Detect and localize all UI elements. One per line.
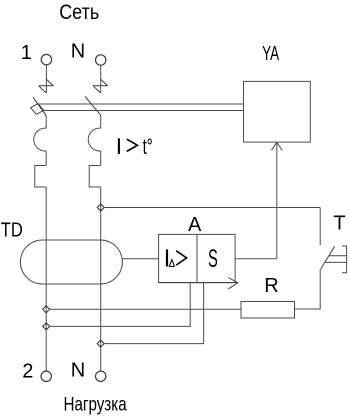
terminal circle 1: [41, 54, 51, 64]
trip-mechanism square on blade pole1: [31, 104, 44, 115]
pole1 wire above coil: [45, 115, 47, 128]
breaker release symbol pole1: [39, 79, 54, 93]
poleN wire above coil: [100, 115, 102, 128]
electromagnetic release arc poleN: [88, 128, 100, 151]
wire TD secondary to module A: [123, 258, 159, 260]
breaker blade contact pole1: [33, 97, 46, 115]
arrow at module A bottom right: [159, 278, 238, 289]
svg-text:1: 1: [21, 42, 32, 64]
poleN wire between releases: [100, 151, 102, 166]
svg-text:S: S: [208, 245, 218, 273]
wire test circuit top horizontal: [104, 207, 320, 209]
terminal circle 2: [41, 371, 51, 381]
wire neutral supply to module A: [104, 283, 203, 344]
arrowhead into YA: [271, 142, 282, 150]
terminal circle N bottom: [96, 371, 106, 381]
wire S output to YA (vertical): [276, 142, 278, 259]
mechanical linkage double line (upper): [39, 103, 244, 105]
node on N for test circuit: [97, 204, 104, 211]
solenoid YA box: [244, 81, 311, 142]
breaker release symbol poleN: [93, 79, 108, 93]
svg-text:A: A: [188, 214, 202, 236]
thermal release notch poleN: [89, 166, 101, 188]
wire pole1 top stub: [45, 65, 47, 93]
wire S output right: [235, 258, 277, 260]
poleN main wire down: [100, 187, 102, 371]
svg-text:Сеть: Сеть: [59, 0, 99, 24]
wire phase to R: [50, 308, 241, 310]
electromagnetic release arc pole1: [34, 128, 46, 151]
test button T blade: [321, 246, 335, 268]
node phase to resistor: [43, 306, 50, 313]
current transformer TD toroid: [20, 240, 122, 284]
pole1 main wire down: [45, 187, 47, 371]
label I > t° (overcurrent release): [119, 138, 137, 154]
pole1 wire between releases: [45, 151, 47, 166]
node neutral to module A supply: [97, 340, 104, 347]
svg-text:Нагрузка: Нагрузка: [64, 395, 128, 416]
svg-text:T: T: [333, 212, 345, 234]
svg-text:t°: t°: [143, 134, 153, 159]
wire down to test button: [319, 208, 321, 246]
svg-text:N: N: [71, 40, 85, 62]
symbol Δ subscript: [169, 260, 174, 267]
wire button to R: [295, 269, 321, 309]
svg-text:TD: TD: [1, 219, 23, 241]
test button prong lower: [325, 261, 347, 263]
wire poleN top stub: [100, 65, 102, 93]
breaker blade contact poleN: [85, 96, 101, 115]
resistor R box: [241, 302, 295, 319]
svg-text:R: R: [264, 275, 278, 297]
module A box: [159, 234, 236, 282]
module A divider: [196, 234, 198, 282]
svg-text:2: 2: [22, 361, 33, 383]
mechanical linkage double line (lower): [44, 110, 243, 112]
test button actuator bracket: [342, 246, 347, 273]
node phase to module A supply: [43, 323, 50, 330]
thermal release notch pole1: [35, 166, 46, 188]
svg-text:N: N: [71, 360, 85, 382]
test button prong upper: [329, 255, 347, 257]
terminal circle N top: [96, 55, 106, 65]
svg-text:YA: YA: [262, 43, 279, 65]
wire phase supply to module A: [50, 283, 191, 327]
symbol >: [176, 251, 186, 265]
symbol I (differential current): [166, 249, 168, 266]
